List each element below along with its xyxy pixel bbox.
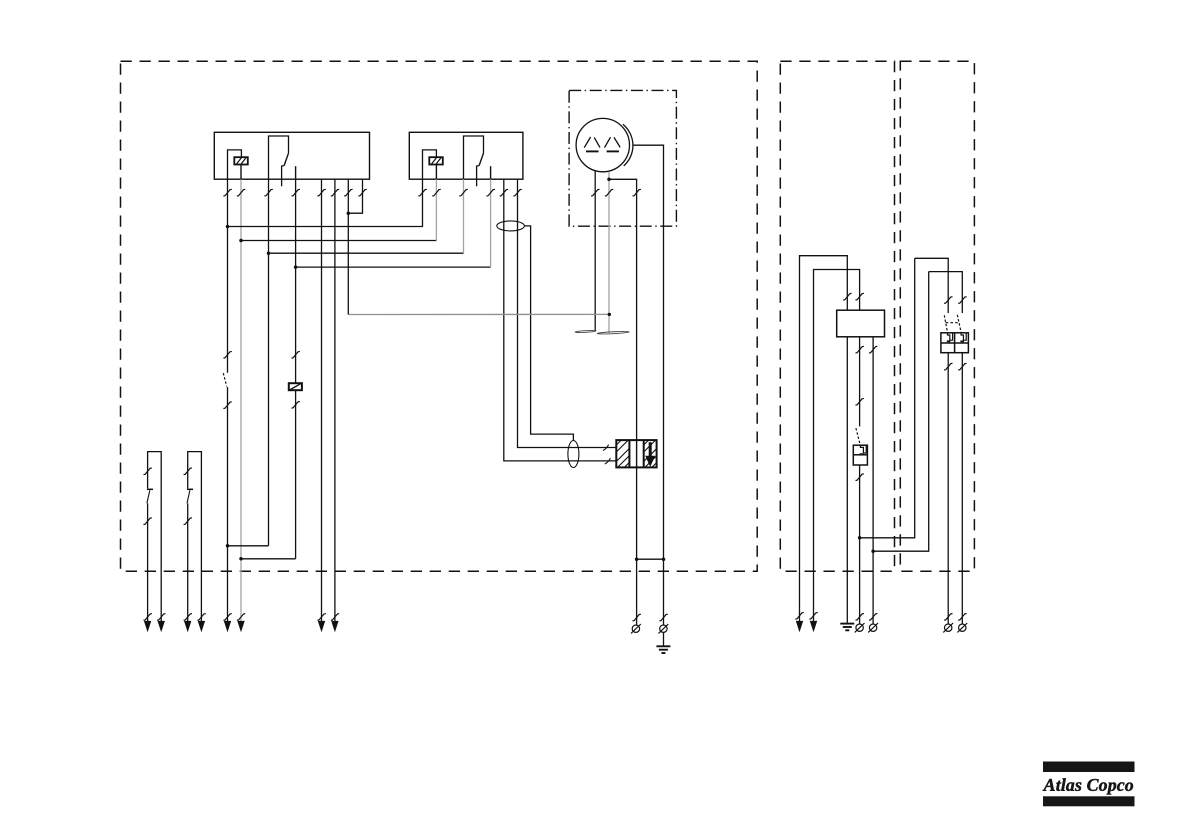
wire K1 pin5: [321, 179, 323, 621]
wire tick at 873.1,349.7: [869, 346, 877, 353]
wire tick at 859.6,616.9: [856, 614, 864, 621]
pressure switch B2 body: [853, 445, 867, 465]
cable arrow x=321.5: [318, 621, 325, 632]
relay K1 coil: [234, 157, 248, 164]
wire tick at 362.5,192.7: [358, 189, 366, 196]
wire tick at 847.3,296.7: [843, 293, 851, 300]
wire A1 pin2 down: [859, 337, 861, 427]
wire Q2 top link: [929, 272, 963, 313]
cable loop marker E2: [568, 441, 579, 468]
junction dot bus A: [226, 225, 230, 229]
terminal symbol B3 right: [957, 623, 967, 632]
wire tick at 422.5,192.7: [418, 189, 426, 196]
switch S5 blade left: [944, 315, 947, 333]
transducer B1 hatch left cell: [616, 440, 628, 452]
enclosure: main cubicle dashed border: [121, 61, 758, 571]
wire B3 right down: [961, 353, 963, 624]
wire tick at 295.6,404.8: [292, 401, 300, 408]
terminal symbol A1pin3 wire: [868, 623, 878, 632]
wire tick at 147.6,471.3: [144, 468, 152, 475]
wire tick at 295.6,192.7: [292, 189, 300, 196]
wire tick at 859.6,296.7: [856, 293, 864, 300]
enclosure: right cubicle 2 dashed border: [780, 61, 894, 571]
wire tick at 948.2,300.1: [944, 297, 952, 304]
wire tick at 609.0,192.7: [605, 189, 613, 196]
wire tick at 321.5,617.0: [317, 614, 325, 621]
wire link cubicle2-3 upper: [860, 258, 915, 538]
junction dot link pin3: [226, 544, 230, 548]
relay K2 box: [409, 132, 523, 179]
relay K1 coil bottom lead: [240, 165, 242, 180]
junction dot sensor wire: [608, 313, 611, 316]
wire tick at 241.0,617.0: [237, 614, 245, 621]
wire bus A (K1 pin1 to K2 pin1): [228, 179, 423, 226]
wire tick at 636.6,192.7: [633, 189, 641, 196]
motor M1 circle: [576, 118, 629, 171]
wire Q1 top link: [915, 258, 949, 313]
wire tick at 595.2,192.7: [591, 189, 599, 196]
wire motor right lead: [632, 145, 663, 624]
wire K1 pin1 lower: [227, 387, 229, 622]
wire tick at 161.2,617.0: [157, 614, 165, 621]
svg-text:Atlas Copco: Atlas Copco: [1043, 775, 1134, 795]
wire tick at 147.6,521.2: [144, 518, 152, 525]
cable arrow x=201.4: [198, 621, 205, 632]
wire S2 lower leg: [187, 503, 189, 621]
transducer B1 hatch right cell: [644, 440, 656, 452]
wire tick at 348.3,192.7: [344, 189, 352, 196]
wire B2 down: [859, 465, 861, 624]
fan blade left: [575, 330, 596, 333]
cable arrow x=161.2: [158, 621, 165, 632]
wire temperature sensor (grey): [349, 313, 609, 315]
wire terminal through transducer: [636, 440, 638, 467]
pressure switch B3 inner square left: [948, 333, 953, 340]
wire tick at 227.5,617.0: [223, 614, 231, 621]
wire tick at 187.7,521.2: [184, 518, 192, 525]
wire tick at 187.7,617.0: [184, 614, 192, 621]
wire tick at 859.6,349.7: [856, 346, 864, 353]
wire tick at 334.9,617.0: [331, 614, 339, 621]
wire link K1-pin3 to pin1 wire: [228, 545, 269, 547]
wire tick at 859.6,477.2: [856, 474, 864, 481]
transducer B1 body: [616, 440, 656, 467]
relay K1 coil wire bracket: [228, 150, 242, 179]
junction dot motor tap: [607, 178, 611, 182]
wire tick at 962.3,616.9: [958, 614, 966, 621]
wire tick at 268.5,192.7: [264, 189, 272, 196]
relay K1 contact fixed terminal: [295, 166, 297, 179]
wire K2 coil return (grey): [435, 179, 437, 240]
wire K2 pin3 (grey): [463, 179, 465, 253]
wire tick at 334.9,192.7: [331, 189, 339, 196]
wire bus D: [296, 266, 491, 268]
wire tick at 463.5,192.7: [459, 189, 467, 196]
ground symbol motor: [656, 646, 670, 653]
wire tick at 227.5,192.7: [223, 189, 231, 196]
switch S1 hairpin loop: [148, 452, 162, 622]
wire A1 pin1 to ground: [846, 337, 848, 624]
wire B3 left down: [947, 353, 949, 624]
ground symbol cubicle2: [840, 624, 854, 631]
enclosure: motor M1 dash-dot border: [569, 90, 676, 226]
control unit A1 box: [837, 310, 885, 337]
cable arrow x=334.9: [331, 621, 338, 632]
wire K2 fixed contact (grey): [490, 179, 492, 267]
wire motor phase U (black): [594, 171, 596, 331]
Atlas Copco logo top bar: [1043, 762, 1135, 773]
terminal symbol motor terminal: [631, 624, 641, 633]
pressure switch B3 inner square right: [961, 333, 966, 340]
junction dot A1pin3/link2: [871, 549, 875, 553]
wire tick at 517.5,192.7: [513, 189, 521, 196]
wire tick at 147.6,617.0: [144, 614, 152, 621]
wire motor phase V (grey): [608, 172, 610, 333]
wire tick at 948.2,366.7: [944, 363, 952, 370]
cable twist hook lower wire: [605, 458, 611, 464]
relay K2 contact: [464, 136, 484, 179]
wire P2 supply: [814, 270, 860, 622]
wire motor tap to terminal: [609, 179, 637, 624]
wire bus C: [269, 252, 464, 254]
wire tick at 873.1,616.9: [869, 614, 877, 621]
wire tick at 663.5,617.6: [659, 614, 667, 621]
transducer B1 flow arrow: [649, 442, 652, 456]
junction dot link fixed: [239, 557, 243, 561]
enclosure: right cubicle 3 dashed border: [900, 61, 974, 571]
cable loop marker E1: [497, 221, 525, 231]
switch S2 hairpin loop: [188, 452, 202, 622]
cable arrow x=227.5: [224, 621, 231, 632]
cable arrow x=147.6: [144, 621, 151, 632]
cable arrow x=187.7: [184, 621, 191, 632]
wire tick at 241.0,192.7: [237, 189, 245, 196]
junction dot link left: [635, 557, 639, 561]
switch S5 mechanical linkage: [946, 322, 959, 324]
motor M1 delta symbol left: [584, 137, 590, 148]
relay K2 contact fixed terminal: [490, 166, 492, 179]
wire earth stub: [663, 633, 665, 646]
wire tick at 503.8,192.7: [500, 189, 508, 196]
wire tick at 948.2,616.9: [944, 614, 952, 621]
motor M1 underline right: [607, 150, 619, 152]
junction dot B2/link1: [858, 536, 862, 540]
wire K1 pin1 upper: [227, 179, 229, 373]
motor M1 second winding arc: [623, 124, 633, 166]
wire tick at 962.3,300.1: [958, 297, 966, 304]
wire K1 coil return (grey): [240, 179, 242, 621]
switch S3 blade on K1 pin1 wire: [223, 373, 226, 386]
wire tick at 321.5,192.7: [317, 189, 325, 196]
relay K1 contact: [269, 136, 289, 179]
junction dot bus C: [267, 251, 271, 255]
terminal symbol B2 wire: [855, 623, 865, 632]
wire K1 pin3: [268, 179, 270, 546]
switch S4 blade: [856, 428, 860, 445]
wire tick at 813.5,615.8: [809, 612, 817, 619]
wire P1 supply: [800, 256, 848, 622]
motor M1 underline left: [586, 150, 599, 152]
cable arrow P2: [810, 621, 817, 632]
terminal symbol B3 left: [943, 623, 953, 632]
fuse F1 on wire: [289, 383, 302, 390]
wire from loop marker to screen: [524, 226, 573, 441]
wire tick at 295.6,354.8: [292, 351, 300, 358]
pressure switch B2 inner square: [860, 445, 866, 453]
cable twist hook upper wire: [603, 445, 609, 451]
wire K2 pin7 down: [518, 179, 617, 447]
junction dot link right: [662, 557, 666, 561]
wire K2 pin6 down: [504, 179, 617, 461]
wire K1 pin7: [347, 179, 349, 314]
wire tick at 201.4,617.0: [197, 614, 205, 621]
pressure switch B3 body: [941, 333, 969, 353]
switch S2 blade: [187, 488, 193, 490]
Atlas Copco logo bottom bar: [1043, 796, 1135, 806]
motor M1 delta symbol right: [605, 137, 611, 147]
wire link cubicle2-3 lower: [873, 272, 929, 552]
relay K2 coil: [429, 157, 443, 164]
wire tick at 490.6,192.7: [487, 189, 495, 196]
relay K2 coil bottom lead: [435, 165, 437, 180]
wire tick at 436.4,192.7: [432, 189, 440, 196]
fan blade right: [597, 331, 629, 335]
wire bus B (coil returns): [241, 240, 436, 242]
terminal symbol motor earth wire: [659, 624, 669, 633]
wire K1 pin8 jog: [348, 179, 362, 213]
relay K1 box: [214, 132, 369, 179]
transducer B1 divider 2: [643, 440, 645, 467]
wire tick at 799.5,615.8: [795, 612, 803, 619]
wire tick at 636.6,617.6: [633, 614, 641, 621]
wire link terminal pair: [637, 558, 664, 560]
wire A1 pin3 down: [872, 337, 874, 624]
wire tick at 187.7,471.3: [184, 468, 192, 475]
wire tick at 227.5,405.2: [223, 402, 231, 409]
junction dot K1 pin8 jog: [347, 211, 351, 215]
wire S1 lower leg: [147, 503, 149, 621]
wire K1 fixed contact down: [295, 179, 297, 559]
transducer B1 divider 1: [628, 440, 630, 467]
relay K2 coil wire bracket: [423, 150, 437, 179]
switch S1 blade: [147, 488, 153, 490]
cable arrow P1: [796, 621, 803, 632]
wire tick at 227.5,354.8: [223, 351, 231, 358]
wire tick at 859.6,401.8: [856, 398, 864, 405]
wire link K1-fixed to coil-return wire: [241, 558, 296, 560]
switch S5 blade right: [957, 315, 961, 333]
wire K1 pin6: [334, 179, 336, 621]
wire tick at 962.3,366.7: [958, 363, 966, 370]
junction dot bus B: [239, 239, 243, 243]
cable arrow grey wire: [237, 621, 244, 632]
junction dot bus D: [294, 265, 298, 269]
